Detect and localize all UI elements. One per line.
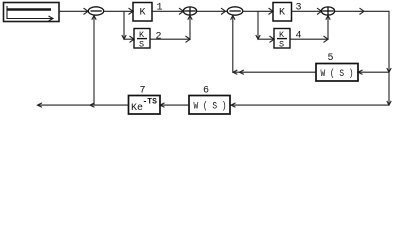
block Ke^-TS 7: [129, 96, 161, 115]
wire K1 to S2: [152, 8, 184, 14]
node branch down to K/S 4: [256, 11, 274, 42]
wire S4 to right edge with corner down: [335, 8, 389, 105]
svg-text:S: S: [139, 40, 144, 50]
svg-text:K: K: [140, 8, 146, 19]
wire S2 to S3: [197, 8, 227, 14]
svg-text:5: 5: [328, 53, 334, 64]
wire W(S)6 to Ke-TS: [160, 103, 189, 107]
summing junction S2: [183, 7, 196, 15]
svg-text:2: 2: [156, 32, 162, 43]
svg-text:-TS: -TS: [143, 98, 158, 107]
svg-text:K: K: [279, 8, 285, 19]
svg-text:6: 6: [203, 86, 209, 97]
wire S3 to K3: [243, 8, 273, 14]
wire S1 to K1: [104, 8, 133, 14]
svg-text:Ke: Ke: [131, 103, 143, 114]
feedback riser up into S1: [92, 16, 96, 106]
svg-text:S: S: [279, 40, 284, 50]
bottom wire Ke-TS output, junction arrow, output arrow left: [38, 103, 129, 107]
summing junction S4: [321, 7, 334, 15]
signal source (step input): [4, 3, 60, 22]
block K/S 4: [274, 29, 290, 49]
wire W(S)5 output to riser up into S3: [231, 16, 316, 75]
block W(S) 5: [316, 64, 358, 82]
wire K/S4 up into S4: [290, 16, 330, 43]
node branch down to K/S 2: [122, 11, 134, 42]
summing junction S1: [88, 7, 103, 15]
block W(S) 6: [189, 96, 230, 115]
bottom feedback from right edge into W(S)6 with down arrow at junction: [230, 101, 391, 107]
wire right edge into W(S)5 with down arrow at junction: [358, 68, 391, 74]
svg-text:W ( S ): W ( S ): [194, 101, 227, 113]
svg-text:4: 4: [296, 31, 302, 42]
wire K3 to S4: [292, 8, 322, 14]
wire source to S1: [59, 8, 88, 14]
block K1: [133, 3, 152, 22]
svg-text:7: 7: [140, 86, 146, 97]
svg-text:W ( S ): W ( S ): [321, 68, 354, 80]
block K/S 2: [134, 29, 150, 49]
block K3: [273, 3, 292, 22]
svg-text:K: K: [139, 30, 145, 40]
svg-text:K: K: [279, 30, 285, 40]
wire K/S2 up into S2: [150, 16, 192, 43]
summing junction S3: [227, 7, 243, 15]
